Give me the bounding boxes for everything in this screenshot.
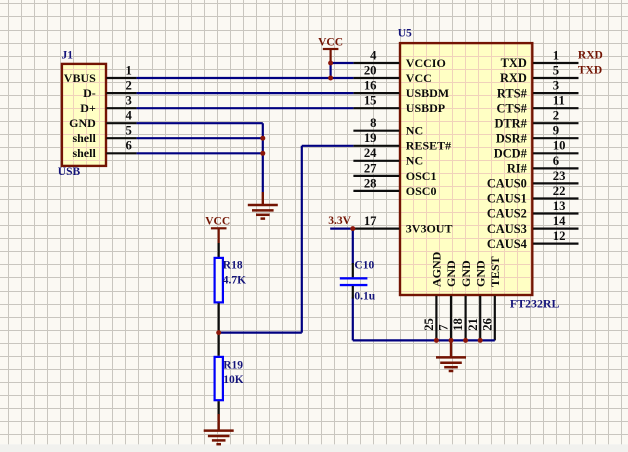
svg-text:3: 3 bbox=[125, 94, 131, 108]
svg-text:7: 7 bbox=[437, 324, 451, 331]
wire 3.3V to U5.17 bbox=[330, 228, 353, 230]
resistor R19 pin bottom bbox=[218, 401, 220, 414]
U5 pin 12 (CAUS4) bbox=[487, 229, 579, 251]
svg-text:TXD: TXD bbox=[578, 65, 602, 77]
svg-text:27: 27 bbox=[364, 161, 377, 175]
connector J1 body bbox=[62, 64, 106, 166]
U5 pin 16 (USBDM) bbox=[353, 79, 449, 101]
svg-text:U5: U5 bbox=[398, 27, 412, 39]
svg-text:4: 4 bbox=[370, 48, 377, 62]
U5 pin 19 (RESET#) bbox=[353, 131, 451, 153]
svg-text:10K: 10K bbox=[223, 374, 244, 386]
wire RESET# horizontal bbox=[302, 145, 354, 147]
U5 pin 15 (USBDP) bbox=[353, 94, 445, 116]
svg-text:RTS#: RTS# bbox=[497, 86, 528, 100]
IC U5 FT232RL body bbox=[400, 43, 532, 295]
capacitor C10 pin top bbox=[352, 263, 354, 277]
U5 pin 21 (GND) bottom bbox=[466, 260, 488, 340]
svg-text:VCC: VCC bbox=[318, 37, 343, 49]
svg-text:5: 5 bbox=[125, 124, 131, 138]
svg-text:D+: D+ bbox=[80, 101, 96, 115]
junction node GND7 bbox=[449, 338, 454, 343]
svg-text:OSC0: OSC0 bbox=[406, 184, 437, 198]
U5 pin 11 (CTS#) bbox=[496, 94, 578, 116]
svg-text:5: 5 bbox=[553, 64, 559, 78]
U5 pin 27 (OSC1) bbox=[353, 161, 436, 183]
svg-text:DTR#: DTR# bbox=[494, 116, 527, 130]
svg-text:R19: R19 bbox=[223, 359, 243, 371]
svg-text:3: 3 bbox=[553, 79, 559, 93]
wire RESET# vertical bbox=[301, 146, 303, 333]
U5 pin 22 (CAUS1) bbox=[487, 184, 579, 206]
svg-text:J1: J1 bbox=[62, 50, 74, 62]
junction node shell upper bbox=[260, 136, 265, 141]
wire GND J1.4 horizontal bbox=[137, 122, 263, 124]
ground symbol (below R19) bbox=[204, 414, 234, 444]
svg-text:16: 16 bbox=[364, 79, 377, 93]
svg-text:22: 22 bbox=[553, 184, 566, 198]
svg-text:23: 23 bbox=[553, 169, 566, 183]
svg-text:6: 6 bbox=[553, 154, 559, 168]
ground symbol (U5 GND pins) bbox=[436, 340, 466, 371]
junction node GND18 bbox=[463, 338, 468, 343]
svg-text:FT232RL: FT232RL bbox=[510, 296, 560, 310]
junction node AGND bbox=[434, 338, 439, 343]
resistor R18 body bbox=[215, 258, 223, 303]
svg-text:26: 26 bbox=[480, 318, 494, 331]
svg-text:4: 4 bbox=[125, 109, 132, 123]
svg-text:3V3OUT: 3V3OUT bbox=[406, 222, 453, 236]
svg-text:24: 24 bbox=[364, 146, 377, 160]
svg-text:TXD: TXD bbox=[501, 56, 527, 70]
svg-text:0.1u: 0.1u bbox=[354, 290, 375, 302]
svg-text:AGND: AGND bbox=[430, 251, 444, 287]
svg-text:10: 10 bbox=[553, 139, 566, 153]
wire VBUS J1.1 to U5.20 bbox=[137, 77, 354, 79]
resistor R19 pin top bbox=[218, 333, 220, 356]
U5 pin 5 (RXD) bbox=[500, 64, 579, 86]
wire VCC vertical bbox=[330, 63, 332, 78]
svg-text:CAUS3: CAUS3 bbox=[487, 222, 527, 236]
J1 pin 1 (VBUS) bbox=[64, 64, 137, 86]
svg-text:R18: R18 bbox=[223, 260, 243, 272]
svg-text:D-: D- bbox=[83, 86, 96, 100]
U5 pin 17 (3V3OUT) bbox=[353, 214, 452, 236]
svg-text:NC: NC bbox=[406, 154, 423, 168]
U5 pin 10 (DCD#) bbox=[494, 139, 579, 161]
wire D- J1.2 to U5.16 bbox=[137, 92, 354, 94]
U5 pin 6 (RI#) bbox=[507, 154, 579, 176]
svg-text:14: 14 bbox=[553, 214, 566, 228]
svg-text:17: 17 bbox=[364, 214, 377, 228]
svg-text:15: 15 bbox=[364, 94, 377, 108]
svg-text:GND: GND bbox=[473, 260, 487, 287]
junction node 3V3OUT/C10 bbox=[350, 226, 355, 231]
svg-text:USBDP: USBDP bbox=[406, 101, 445, 115]
svg-text:DCD#: DCD# bbox=[494, 147, 528, 161]
svg-text:VCC: VCC bbox=[205, 215, 230, 227]
junction node VCC/VBUS bbox=[328, 76, 333, 81]
J1 pin 3 (D+) bbox=[80, 94, 136, 116]
svg-text:RI#: RI# bbox=[507, 162, 528, 176]
svg-text:GND: GND bbox=[444, 260, 458, 287]
svg-text:21: 21 bbox=[466, 318, 480, 331]
svg-text:11: 11 bbox=[553, 94, 565, 108]
svg-text:CAUS1: CAUS1 bbox=[487, 192, 527, 206]
wire 3V3OUT down to C10 bbox=[352, 229, 354, 264]
svg-text:1: 1 bbox=[553, 48, 559, 62]
wire R18/R19 node to RESET# bbox=[219, 332, 302, 334]
svg-text:VBUS: VBUS bbox=[64, 71, 96, 85]
junction node GND21 bbox=[478, 338, 483, 343]
J1 pin 2 (D-) bbox=[83, 79, 136, 101]
U5 pin 18 (GND) bottom bbox=[451, 260, 473, 340]
wire shell J1.6 bbox=[137, 152, 263, 154]
svg-text:GND: GND bbox=[69, 116, 96, 130]
wire shell J1.5 bbox=[137, 137, 263, 139]
wire GND vertical bbox=[262, 123, 264, 192]
svg-text:GND: GND bbox=[459, 260, 473, 287]
U5 pin 28 (OSC0) bbox=[353, 176, 436, 198]
svg-text:CAUS0: CAUS0 bbox=[487, 177, 527, 191]
svg-text:6: 6 bbox=[125, 139, 131, 153]
wire ground bus bbox=[353, 339, 495, 341]
junction node shell lower bbox=[260, 151, 265, 156]
wire C10 down to ground bus bbox=[352, 298, 354, 341]
power symbol VCC (left) bbox=[205, 215, 230, 243]
svg-text:19: 19 bbox=[364, 131, 377, 145]
wire VCC to U5.4 bbox=[331, 62, 354, 64]
svg-text:4.7K: 4.7K bbox=[223, 274, 246, 286]
svg-text:shell: shell bbox=[72, 131, 96, 145]
svg-text:DSR#: DSR# bbox=[496, 131, 528, 145]
svg-text:2: 2 bbox=[125, 79, 131, 93]
svg-text:VCCIO: VCCIO bbox=[406, 56, 446, 70]
U5 pin 24 (NC) bbox=[353, 146, 423, 168]
U5 pin 14 (CAUS3) bbox=[487, 214, 579, 236]
svg-text:18: 18 bbox=[451, 318, 465, 331]
svg-text:CAUS4: CAUS4 bbox=[487, 237, 527, 251]
svg-text:TEST: TEST bbox=[488, 256, 502, 287]
U5 pin 20 (VCC) bbox=[353, 64, 431, 86]
J1 pin 5 (shell) bbox=[72, 124, 136, 146]
J1 pin 4 (GND) bbox=[69, 109, 136, 131]
U5 pin 23 (CAUS0) bbox=[487, 169, 579, 191]
svg-text:RXD: RXD bbox=[500, 71, 527, 85]
svg-text:25: 25 bbox=[422, 318, 436, 331]
U5 pin 7 (GND) bottom bbox=[437, 260, 459, 340]
resistor R18 pin bottom bbox=[218, 303, 220, 332]
resistor R19 body bbox=[215, 357, 223, 400]
svg-text:USBDM: USBDM bbox=[406, 86, 449, 100]
U5 pin 4 (VCCIO) bbox=[353, 48, 445, 70]
J1 pin 6 (shell) bbox=[72, 139, 136, 161]
svg-text:2: 2 bbox=[553, 109, 559, 123]
junction node VCC/VCCIO bbox=[328, 61, 333, 66]
U5 pin 25 (AGND) bottom bbox=[422, 251, 444, 340]
svg-text:RXD: RXD bbox=[578, 50, 603, 62]
svg-text:RESET#: RESET# bbox=[406, 139, 451, 153]
junction node R18/R19 bbox=[216, 330, 221, 335]
svg-text:28: 28 bbox=[364, 176, 377, 190]
svg-text:9: 9 bbox=[553, 124, 559, 138]
U5 pin 2 (DTR#) bbox=[494, 109, 578, 131]
U5 pin 26 (TEST) bottom bbox=[480, 256, 502, 340]
svg-text:13: 13 bbox=[553, 199, 566, 213]
wire D+ J1.3 to U5.15 bbox=[137, 107, 354, 109]
svg-text:shell: shell bbox=[72, 146, 96, 160]
U5 pin 1 (TXD) bbox=[501, 48, 579, 70]
ground symbol (USB shield) bbox=[248, 192, 278, 219]
svg-text:1: 1 bbox=[125, 64, 131, 78]
svg-text:VCC: VCC bbox=[406, 71, 432, 85]
U5 pin 3 (RTS#) bbox=[497, 79, 579, 101]
svg-text:OSC1: OSC1 bbox=[406, 169, 437, 183]
svg-text:CTS#: CTS# bbox=[496, 101, 527, 115]
svg-text:20: 20 bbox=[364, 64, 377, 78]
U5 pin 13 (CAUS2) bbox=[487, 199, 579, 221]
capacitor C10 pin bottom bbox=[352, 286, 354, 299]
U5 pin 9 (DSR#) bbox=[496, 124, 579, 146]
svg-text:8: 8 bbox=[370, 116, 376, 130]
U5 pin 8 (NC) bbox=[353, 116, 423, 138]
svg-text:3.3V: 3.3V bbox=[328, 215, 351, 227]
power symbol VCC (top) bbox=[318, 37, 343, 63]
svg-text:NC: NC bbox=[406, 124, 423, 138]
svg-text:USB: USB bbox=[58, 166, 81, 178]
svg-text:12: 12 bbox=[553, 229, 566, 243]
svg-text:C10: C10 bbox=[354, 260, 374, 272]
capacitor C10 plates bbox=[340, 277, 368, 286]
svg-text:CAUS2: CAUS2 bbox=[487, 207, 527, 221]
window background band at bottom bbox=[0, 444, 628, 452]
resistor R18 pin top bbox=[218, 243, 220, 257]
